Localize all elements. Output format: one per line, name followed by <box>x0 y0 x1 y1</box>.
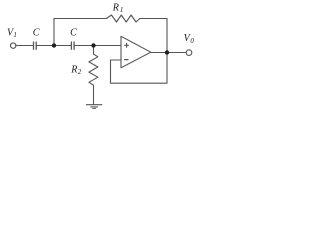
resistor R2 <box>89 54 98 85</box>
svg-text:C: C <box>33 27 40 38</box>
svg-text:1: 1 <box>120 6 124 14</box>
svg-text:2: 2 <box>78 68 82 76</box>
node output <box>165 50 169 54</box>
svg-text:0: 0 <box>190 37 194 45</box>
wire node B to op-amp + input <box>94 45 122 47</box>
svg-text:1: 1 <box>13 31 17 39</box>
svg-text:R: R <box>70 64 77 75</box>
svg-text:R: R <box>112 3 119 14</box>
resistor R1 <box>106 15 140 22</box>
wire op-amp output <box>151 52 186 54</box>
capacitor C (second) <box>70 42 72 49</box>
wire op-amp minus input feedback <box>111 53 168 84</box>
node A <box>52 43 56 47</box>
wire node A to C2 <box>54 45 71 47</box>
ground <box>86 104 101 106</box>
terminal V1 <box>11 43 16 48</box>
terminal V0 <box>186 50 192 56</box>
wire C2 to node B <box>75 45 94 47</box>
wire top left to R1 <box>54 18 106 20</box>
capacitor C (first) <box>33 42 35 49</box>
wire R2 to ground <box>93 85 95 104</box>
wire right vertical down <box>166 19 168 53</box>
wire C to node A <box>37 45 54 47</box>
op-amp U1 <box>121 36 151 68</box>
node B <box>91 43 95 47</box>
wire node A up <box>53 19 55 46</box>
wire node B down to R2 <box>93 46 95 55</box>
wire input to C <box>16 45 33 47</box>
svg-text:C: C <box>70 28 77 39</box>
wire R1 to right vertical <box>140 18 167 20</box>
